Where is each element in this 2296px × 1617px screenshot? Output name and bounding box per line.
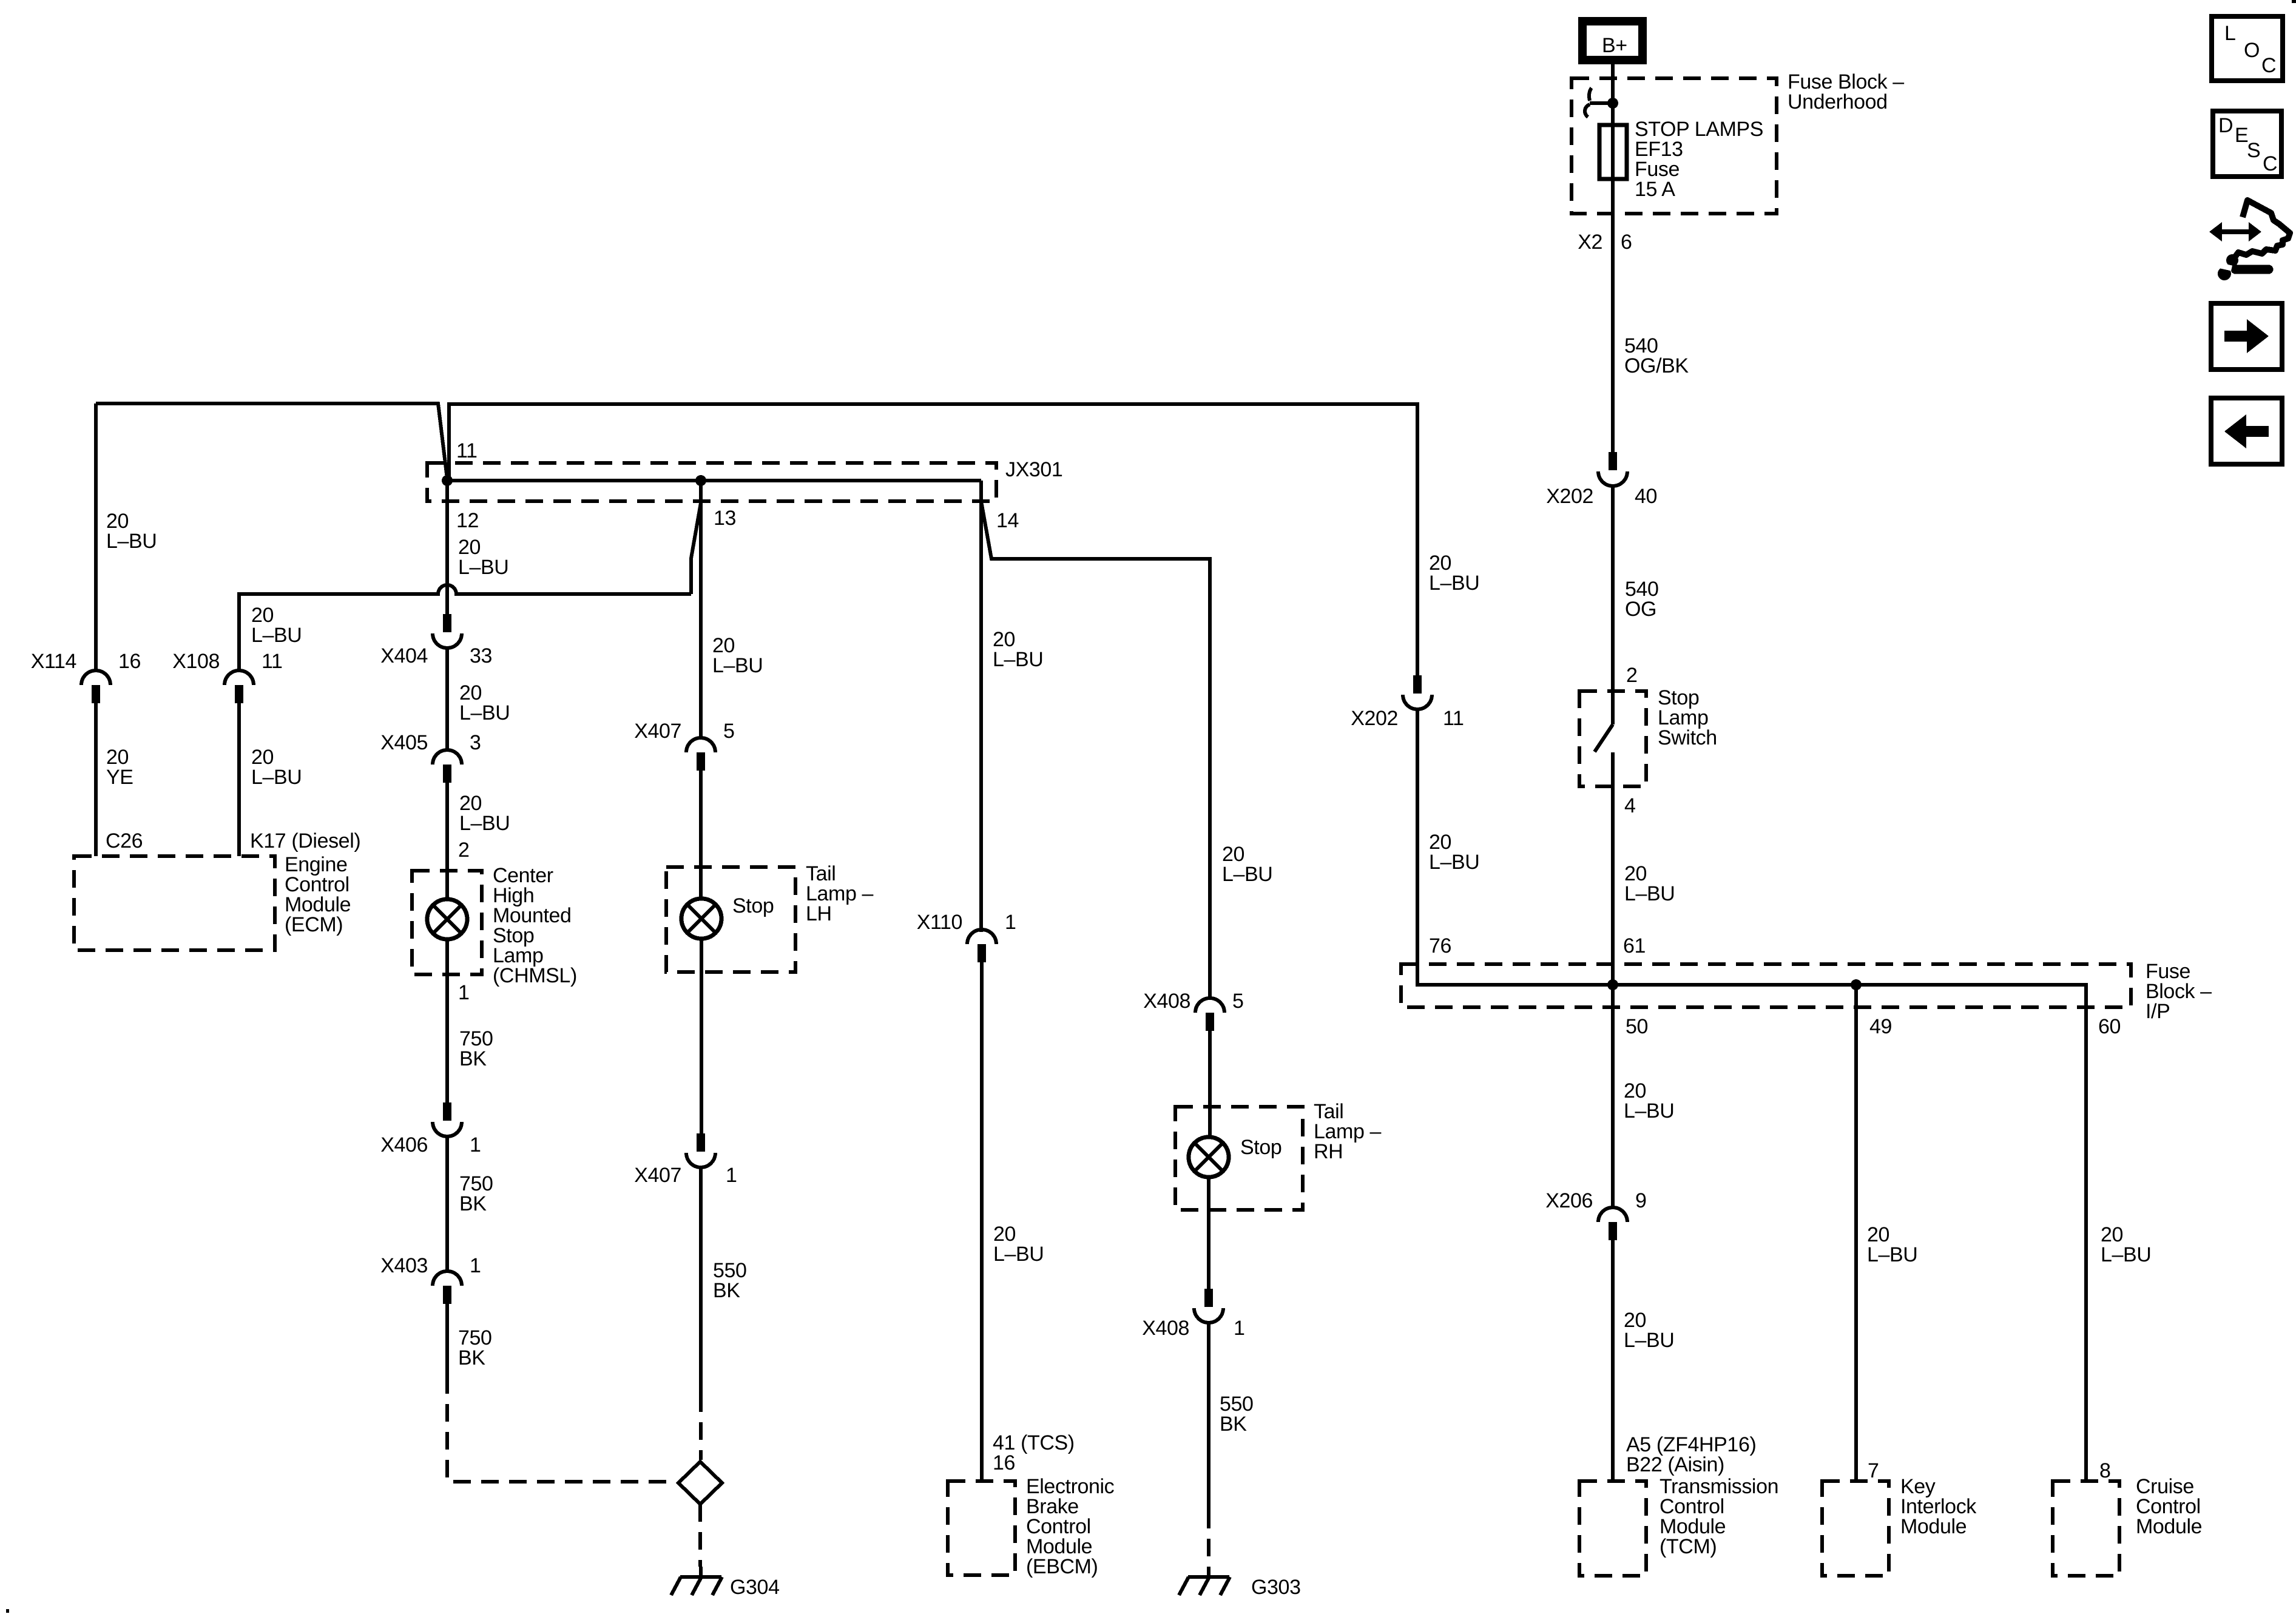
connector X405 pin 3 xyxy=(433,750,462,783)
fuse block I/P internal bus xyxy=(1613,985,2086,1481)
wire X408-5 to RH lamp xyxy=(1208,1031,1212,1138)
label G303 xyxy=(1251,1576,1301,1599)
svg-text:BK: BK xyxy=(458,1346,485,1369)
svg-text:2: 2 xyxy=(1626,664,1638,687)
svg-text:40: 40 xyxy=(1635,485,1657,508)
svg-text:1: 1 xyxy=(470,1133,481,1156)
svg-text:L–BU: L–BU xyxy=(712,654,763,677)
svg-text:G303: G303 xyxy=(1251,1576,1301,1599)
svg-text:5: 5 xyxy=(1232,990,1244,1013)
svg-text:11: 11 xyxy=(456,439,478,462)
svg-text:X408: X408 xyxy=(1143,990,1190,1013)
pin label 1 (CHMSL) xyxy=(458,981,470,1004)
wire label 20 L-BU (cruise) xyxy=(2101,1223,2151,1266)
svg-text:X202: X202 xyxy=(1351,707,1398,730)
wire B+ to fuse block underhood xyxy=(1611,64,1615,103)
icon DESC box xyxy=(2213,111,2281,177)
svg-text:12: 12 xyxy=(456,509,479,532)
wire label 20 YE xyxy=(106,746,133,789)
wire label 540 OG xyxy=(1625,578,1659,621)
svg-text:7: 7 xyxy=(1868,1459,1879,1482)
wire X202-40 to stop lamp switch xyxy=(1611,486,1615,724)
svg-text:X202: X202 xyxy=(1546,485,1593,508)
fuse label STOP LAMPS EF13 Fuse 15 A xyxy=(1635,118,1763,201)
TCM label xyxy=(1660,1475,1778,1558)
wire label 750 BK (X406-X403) xyxy=(459,1172,493,1215)
label X114 16 xyxy=(31,650,141,673)
dashed wire X403 to splice diamond xyxy=(447,1376,676,1482)
svg-text:X405: X405 xyxy=(380,731,428,754)
connector X407 pin 5 xyxy=(686,738,715,771)
lamp stop RH bulb xyxy=(1189,1137,1229,1177)
label X408 1 xyxy=(1142,1317,1244,1340)
junction node JX301 pin 12 xyxy=(442,475,453,486)
wire 13 JX301 to X407-5 xyxy=(699,481,703,738)
label X405 3 xyxy=(380,731,481,754)
fuse block I/P label xyxy=(2146,960,2212,1023)
wire label 20 L-BU (wire 12) xyxy=(458,536,508,579)
label X202 11 xyxy=(1351,707,1464,730)
pin label 76 xyxy=(1429,934,1451,957)
page artifact bottom left xyxy=(6,1609,9,1613)
svg-text:O: O xyxy=(2244,39,2260,62)
tail lamp LH label xyxy=(806,862,873,925)
wire 14 JX301 down to X110 xyxy=(979,481,983,932)
connector X406 pin 1 xyxy=(433,1102,462,1136)
wire label 20 L-BU (K17 lead) xyxy=(251,746,302,789)
label X406 1 xyxy=(380,1133,481,1156)
dashed wire diamond to G304 xyxy=(698,1504,702,1567)
svg-text:1: 1 xyxy=(726,1164,737,1187)
wire X407-5 to LH lamp xyxy=(699,771,703,899)
connector label X2 | 6 xyxy=(1578,231,1632,254)
svg-text:OG: OG xyxy=(1625,598,1656,621)
label X108 11 xyxy=(172,650,282,673)
svg-text:L–BU: L–BU xyxy=(1867,1243,1917,1266)
wire X206 to TCM xyxy=(1611,1240,1615,1481)
tail lamp RH dashed box xyxy=(1175,1107,1303,1210)
EBCM label xyxy=(1026,1475,1115,1578)
svg-text:60: 60 xyxy=(2098,1015,2121,1038)
svg-text:LH: LH xyxy=(806,902,832,925)
battery feed B+ terminal xyxy=(1582,21,1643,60)
ground G304 xyxy=(671,1567,722,1595)
label X202 40 xyxy=(1546,485,1657,508)
wire X407-1 solid tail xyxy=(699,1167,703,1394)
wire X114 riser xyxy=(94,403,98,670)
svg-text:B22 (Aisin): B22 (Aisin) xyxy=(1626,1453,1724,1476)
dashed wire to splice diamond xyxy=(699,1394,703,1460)
pin label 14 xyxy=(996,509,1019,532)
label X206 9 xyxy=(1545,1189,1646,1212)
svg-text:Underhood: Underhood xyxy=(1788,90,1888,113)
svg-text:Module: Module xyxy=(2136,1515,2202,1538)
svg-text:X408: X408 xyxy=(1142,1317,1189,1340)
pin label 13 xyxy=(714,507,736,530)
fuse block underhood label xyxy=(1788,70,1904,113)
svg-text:76: 76 xyxy=(1429,934,1451,957)
switch pin label 4 xyxy=(1624,794,1636,817)
label Stop (RH) xyxy=(1240,1136,1281,1159)
wire X406 to X403 xyxy=(445,1136,449,1271)
wire X108 to ECM K17 xyxy=(237,703,241,856)
JX301 internal bus xyxy=(447,479,981,482)
svg-text:I/P: I/P xyxy=(2146,1000,2170,1023)
junction node pin 49 xyxy=(1851,979,1862,990)
bus tap hook inside fuse block xyxy=(1585,88,1612,117)
label X408 5 xyxy=(1143,990,1243,1013)
connector X407 pin 1 xyxy=(686,1133,715,1167)
svg-text:11: 11 xyxy=(1443,707,1464,730)
svg-text:X110: X110 xyxy=(917,911,962,934)
lamp stop LH bulb xyxy=(681,899,721,939)
connector X110 pin 1 xyxy=(967,930,996,962)
pin label 49 xyxy=(1869,1015,1892,1038)
wire label 20 L-BU (RH lamp lead) xyxy=(1222,843,1272,886)
icon forward arrow box xyxy=(2211,303,2282,370)
wire switch to fuse block I/P pin 61 xyxy=(1611,752,1615,985)
wire CHMSL to X406 xyxy=(445,939,449,1102)
engine control module ECM dashed box xyxy=(74,856,275,950)
icon back arrow box xyxy=(2211,398,2282,464)
pin label 7 xyxy=(1868,1459,1879,1482)
svg-text:11: 11 xyxy=(262,650,283,673)
svg-text:BK: BK xyxy=(459,1047,487,1070)
junction block JX301 dashed box xyxy=(427,463,996,501)
wire label 20 L-BU (wire 14 upper) xyxy=(993,628,1043,671)
ECM label xyxy=(285,853,351,936)
fuse block underhood dashed box xyxy=(1572,78,1777,214)
wire label 20 L-BU (X405-CHMSL) xyxy=(459,792,510,835)
svg-text:Switch: Switch xyxy=(1658,726,1717,749)
svg-text:1: 1 xyxy=(470,1254,481,1277)
wire X403 solid tail xyxy=(445,1304,449,1376)
wire label 550 BK (LH out) xyxy=(713,1259,747,1302)
wire top left horizontal from X114 riser xyxy=(96,403,447,479)
svg-text:(TCM): (TCM) xyxy=(1660,1535,1717,1558)
svg-text:X108: X108 xyxy=(172,650,220,673)
tail lamp LH dashed box xyxy=(666,867,795,972)
svg-text:BK: BK xyxy=(713,1279,740,1302)
TCM dashed box xyxy=(1579,1481,1646,1576)
svg-text:16: 16 xyxy=(993,1451,1015,1474)
wire label 20 L-BU (EBCM lead) xyxy=(993,1223,1044,1266)
key interlock module label xyxy=(1900,1475,1977,1538)
wire label 20 L-BU (pin 76 lead) xyxy=(1429,831,1479,874)
label X407 5 xyxy=(634,720,734,743)
wire label 20 L-BU (X114 riser) xyxy=(106,510,157,553)
switch pin label 2 xyxy=(1626,664,1638,687)
svg-text:1: 1 xyxy=(458,981,470,1004)
svg-text:BK: BK xyxy=(1220,1413,1247,1436)
CHMSL label xyxy=(493,864,577,987)
label X407 1 xyxy=(634,1164,737,1187)
svg-text:2: 2 xyxy=(458,839,470,862)
wire label 550 BK (RH out) xyxy=(1220,1393,1254,1436)
wire label 20 L-BU (X108 riser) xyxy=(251,604,302,647)
svg-text:L–BU: L–BU xyxy=(2101,1243,2151,1266)
wire X114 to ECM C26 xyxy=(94,703,98,856)
svg-text:D: D xyxy=(2218,114,2233,137)
wire LH lamp to X407-1 xyxy=(700,938,703,1133)
pin label 11 xyxy=(456,439,478,462)
svg-text:L–BU: L–BU xyxy=(1429,851,1479,874)
pin label 61 xyxy=(1623,934,1646,957)
wire label 20 L-BU (TCM lead) xyxy=(1624,1309,1674,1352)
svg-text:OG/BK: OG/BK xyxy=(1624,354,1689,377)
wire label 20 L-BU (key interlock) xyxy=(1867,1223,1917,1266)
cruise control module dashed box xyxy=(2053,1481,2119,1576)
EBCM dashed box xyxy=(948,1481,1015,1575)
wire label 20 L-BU below switch xyxy=(1624,862,1675,905)
wire 14 branch to RH lamp xyxy=(981,501,1210,998)
svg-text:L–BU: L–BU xyxy=(1624,1099,1674,1122)
wire top right horizontal to X202-11 riser xyxy=(449,404,1417,675)
fuse EF13 15A STOP LAMPS xyxy=(1599,125,1627,179)
svg-text:E: E xyxy=(2235,124,2248,147)
key interlock module dashed box xyxy=(1822,1481,1889,1576)
cruise control module label xyxy=(2136,1475,2202,1538)
stop lamp switch label xyxy=(1658,686,1717,749)
svg-text:L–BU: L–BU xyxy=(1624,1329,1674,1352)
svg-text:L–BU: L–BU xyxy=(993,648,1043,671)
svg-text:3: 3 xyxy=(470,731,481,754)
svg-text:C26: C26 xyxy=(106,829,143,852)
svg-text:4: 4 xyxy=(1624,794,1636,817)
svg-text:B+: B+ xyxy=(1602,34,1627,57)
svg-text:14: 14 xyxy=(996,509,1019,532)
svg-text:L–BU: L–BU xyxy=(458,556,508,579)
svg-text:S: S xyxy=(2247,139,2260,162)
svg-text:L–BU: L–BU xyxy=(251,624,302,647)
connector X408 pin 5 xyxy=(1195,998,1224,1031)
svg-text:13: 13 xyxy=(714,507,736,530)
stop lamp switch dashed box xyxy=(1579,691,1646,786)
connector X114 pin 16 xyxy=(81,670,110,703)
svg-text:49: 49 xyxy=(1869,1015,1892,1038)
svg-text:L–BU: L–BU xyxy=(106,530,157,553)
pin label 12 xyxy=(456,509,479,532)
svg-text:50: 50 xyxy=(1626,1015,1648,1038)
wire 13 kink to horizontal branch xyxy=(691,503,701,594)
svg-text:C: C xyxy=(2263,152,2277,175)
svg-text:Module: Module xyxy=(1900,1515,1967,1538)
junction node pin 50/61 xyxy=(1607,979,1618,990)
svg-text:15 A: 15 A xyxy=(1635,178,1675,201)
svg-text:8: 8 xyxy=(2099,1459,2111,1482)
wire label 20 L-BU (wire 13) xyxy=(712,634,763,677)
wire label 750 BK (X403 out) xyxy=(458,1326,492,1369)
connector X404 pin 33 xyxy=(433,614,462,648)
connector X202 pin 11 xyxy=(1403,675,1432,709)
svg-text:9: 9 xyxy=(1635,1189,1647,1212)
wire X202-11 to fuse block I/P pin 76 xyxy=(1417,709,1613,985)
wire X405 to CHMSL xyxy=(445,783,449,900)
pin label 8 xyxy=(2099,1459,2111,1482)
connector X202 pin 40 xyxy=(1598,452,1627,486)
wire X404 to X405 xyxy=(445,648,449,750)
svg-text:BK: BK xyxy=(459,1192,487,1215)
horizontal branch wire with hop over wire 12 xyxy=(239,585,691,670)
svg-text:L–BU: L–BU xyxy=(251,766,302,789)
svg-text:X404: X404 xyxy=(380,644,428,667)
svg-text:L–BU: L–BU xyxy=(1222,863,1272,886)
svg-text:33: 33 xyxy=(470,644,492,667)
label X110 1 xyxy=(917,911,1016,934)
junction node in fuse block xyxy=(1607,98,1618,109)
lamp CHMSL bulb xyxy=(427,899,467,939)
label X404 33 xyxy=(380,644,492,667)
dashed wire to G303 xyxy=(1207,1511,1210,1567)
wire label 540 OG/BK xyxy=(1624,334,1689,377)
svg-text:L: L xyxy=(2224,22,2236,45)
CHMSL dashed box xyxy=(412,871,482,974)
connector X408 pin 1 xyxy=(1194,1289,1223,1323)
icon LOC box xyxy=(2212,16,2283,81)
wire label 20 L-BU (pin 50) xyxy=(1624,1079,1674,1122)
connector X403 pin 1 xyxy=(433,1271,462,1304)
wire pin 50 to X206 xyxy=(1611,985,1615,1207)
pin label 41 (TCS) 16 xyxy=(993,1431,1075,1474)
svg-text:K17 (Diesel): K17 (Diesel) xyxy=(250,829,360,852)
label Stop (LH) xyxy=(732,894,774,917)
svg-text:L–BU: L–BU xyxy=(1429,572,1479,595)
label G304 xyxy=(730,1576,780,1599)
svg-text:X407: X407 xyxy=(634,1164,681,1187)
svg-text:Stop: Stop xyxy=(1240,1136,1281,1159)
svg-text:L–BU: L–BU xyxy=(459,812,510,835)
wire fuse to X2 pin 6 exit xyxy=(1611,179,1615,267)
svg-text:(CHMSL): (CHMSL) xyxy=(493,964,577,987)
wire label 20 L-BU (X404-X405) xyxy=(459,681,510,724)
svg-text:L–BU: L–BU xyxy=(1624,882,1675,905)
svg-text:G304: G304 xyxy=(730,1576,780,1599)
pin label C26 xyxy=(106,829,143,852)
junction node JX301 pin 13 xyxy=(695,475,706,486)
ground G303 xyxy=(1179,1567,1230,1595)
splice diamond xyxy=(678,1462,722,1504)
wire RH lamp to X408-1 xyxy=(1207,1176,1210,1289)
svg-text:C: C xyxy=(2261,54,2276,77)
wire label 20 L-BU (X202-11 riser) xyxy=(1429,552,1479,595)
pin label 2 (CHMSL) xyxy=(458,839,470,862)
svg-text:YE: YE xyxy=(106,766,133,789)
label JX301 xyxy=(1005,458,1062,481)
svg-text:X406: X406 xyxy=(380,1133,428,1156)
svg-text:Stop: Stop xyxy=(732,894,774,917)
wire label 750 BK (CHMSL out) xyxy=(459,1027,493,1070)
svg-text:X114: X114 xyxy=(31,650,76,673)
wire X110 to EBCM xyxy=(980,962,984,1481)
wire 12 JX301 to X404 xyxy=(445,481,449,614)
svg-text:(EBCM): (EBCM) xyxy=(1026,1555,1098,1578)
svg-text:1: 1 xyxy=(1234,1317,1245,1340)
svg-text:L–BU: L–BU xyxy=(993,1243,1044,1266)
svg-text:16: 16 xyxy=(118,650,141,673)
svg-text:61: 61 xyxy=(1623,934,1646,957)
svg-text:6: 6 xyxy=(1621,231,1632,254)
wire X408-1 solid tail xyxy=(1207,1323,1210,1511)
svg-text:X403: X403 xyxy=(380,1254,428,1277)
fuse block I/P dashed box xyxy=(1401,964,2131,1007)
wire junction to fuse xyxy=(1611,103,1615,125)
pin label A5 (ZF4HP16) B22 (Aisin) xyxy=(1626,1433,1756,1476)
svg-text:X407: X407 xyxy=(634,720,681,743)
page artifact top right xyxy=(2292,0,2296,3)
pin label 60 xyxy=(2098,1015,2121,1038)
pin label 50 xyxy=(1626,1015,1648,1038)
label X403 1 xyxy=(380,1254,481,1277)
svg-text:L–BU: L–BU xyxy=(459,701,510,724)
wire X2-6 down to X202 pin 40 xyxy=(1611,267,1615,452)
tail lamp RH label xyxy=(1314,1100,1381,1163)
svg-text:RH: RH xyxy=(1314,1140,1343,1163)
wire pin 49 to key interlock module xyxy=(1854,985,1858,1481)
connector X108 pin 11 xyxy=(225,670,254,703)
svg-text:5: 5 xyxy=(723,720,735,743)
svg-text:JX301: JX301 xyxy=(1005,458,1062,481)
svg-text:X2: X2 xyxy=(1578,231,1602,254)
pin label K17 (Diesel) xyxy=(250,829,360,852)
stop lamp switch blade xyxy=(1595,724,1613,752)
svg-text:(ECM): (ECM) xyxy=(285,913,343,936)
icon wrench and arrows xyxy=(2209,200,2290,280)
svg-text:1: 1 xyxy=(1005,911,1016,934)
connector X206 pin 9 xyxy=(1598,1207,1627,1240)
svg-text:X206: X206 xyxy=(1545,1189,1593,1212)
